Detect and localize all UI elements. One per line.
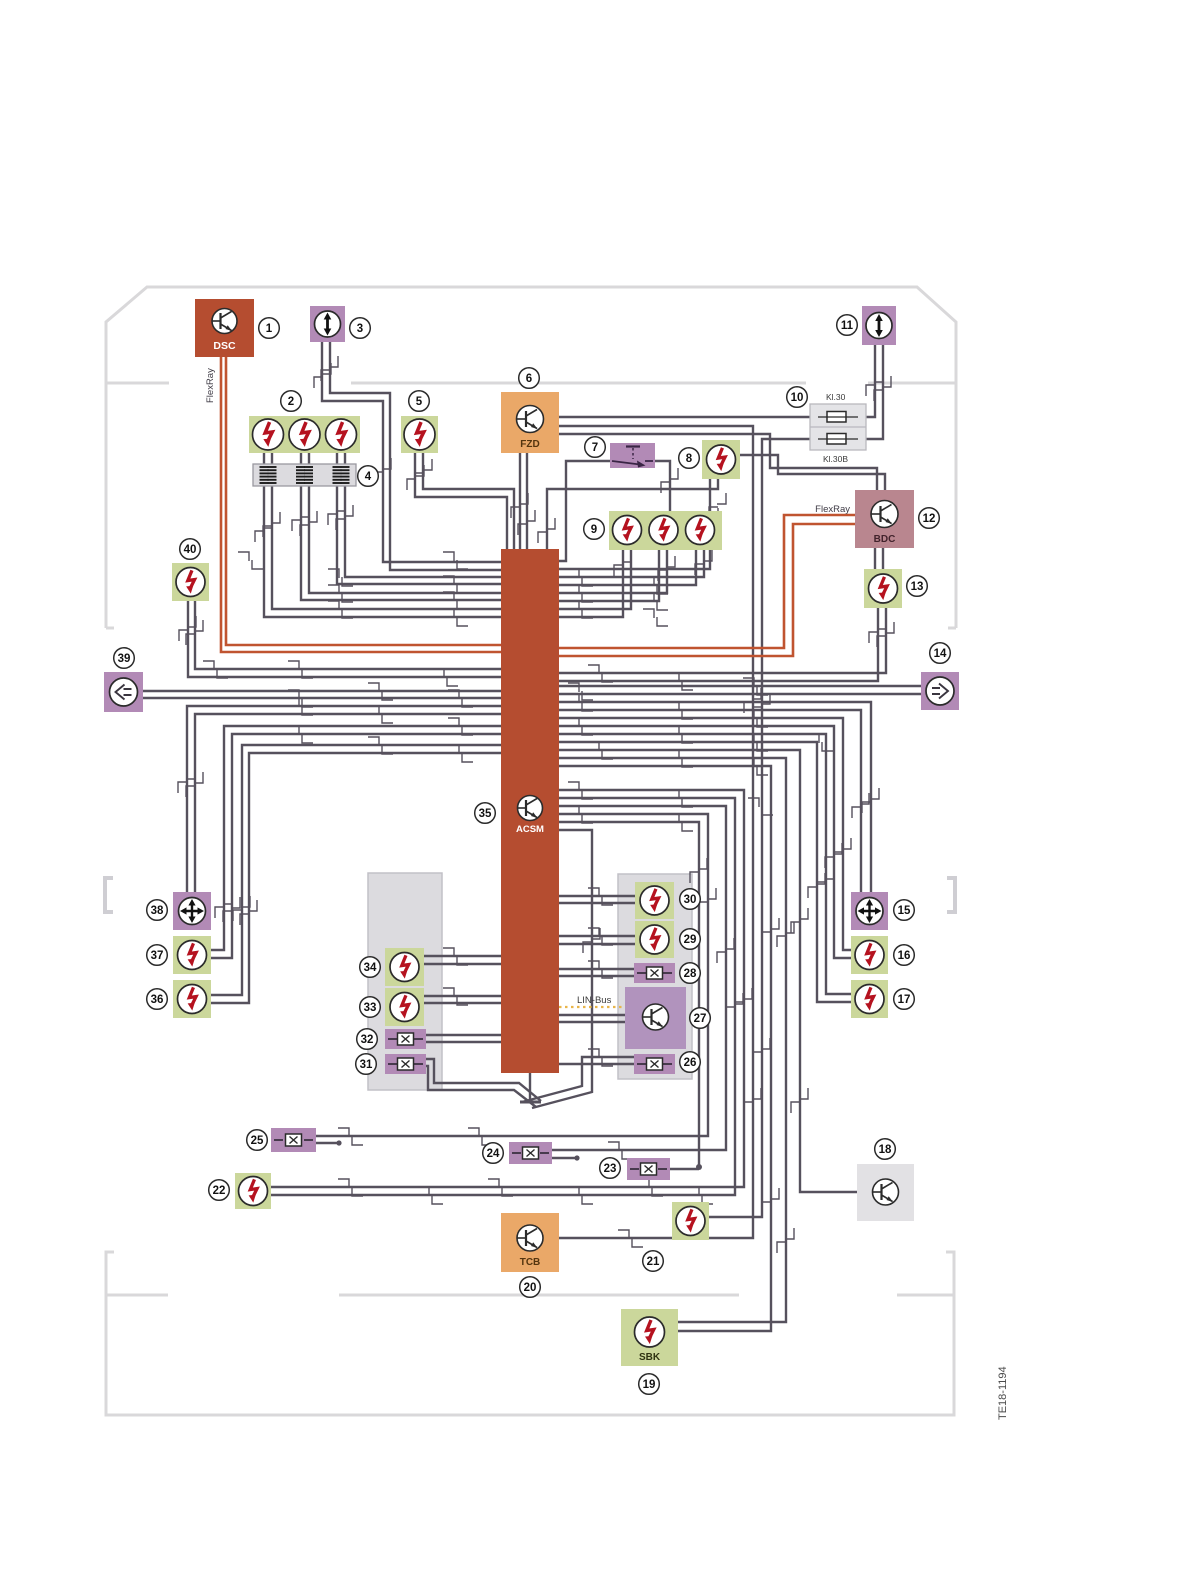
wire FZD through fuse KL30 to box11 [559,345,875,417]
node label 7 [585,437,606,458]
node label 5 [409,391,430,412]
wire band2 c2R to ACSM [309,450,501,593]
node label 34 [360,957,381,978]
wire band9 c3R to ACSM [559,550,704,577]
svg-text:11: 11 [841,320,854,332]
svg-text:35: 35 [479,808,492,820]
FZD control unit [501,392,559,453]
svg-text:16: 16 [898,950,911,962]
wire BDC to box13 link L [874,548,876,569]
ground stem [529,1073,531,1101]
wire ACSM to box22 a [271,790,744,1187]
box 27 seat control unit [625,987,686,1049]
box 38 seat position [173,892,211,930]
box 21 airbag igniter [672,1202,709,1240]
svg-text:13: 13 [911,581,924,593]
connector break symbols [443,552,468,569]
left seat module panel [368,873,442,1090]
node label 26 [680,1052,701,1073]
box 23 belt tensioner [627,1158,670,1180]
svg-text:34: 34 [364,962,377,974]
box 40 airbag igniter [172,563,209,601]
wire ACSM to box15 b [559,710,861,892]
svg-text:TCB: TCB [520,1257,541,1268]
wire ACSM to box25 [316,814,708,1136]
LIN-Bus line [559,1006,625,1008]
svg-text:24: 24 [487,1148,500,1160]
wire ACSM to box26 b [559,1063,635,1065]
box 22 airbag igniter [235,1173,271,1209]
box24 stub [552,1157,576,1159]
box 37 airbag igniter [173,936,211,974]
wire ACSM to box36 b [211,753,501,1003]
wire box8 right to BDC top [740,455,885,490]
node label 33 [360,997,381,1018]
band 2: three airbag igniters [249,416,360,453]
wire ACSM to box23 junction [559,822,699,1166]
wire ACSM to box14 upper [559,685,921,687]
wire FZD down right loom to TCB [559,426,753,1238]
wire ACSM to box32 a [426,1034,501,1036]
wire ACSM to box18 [559,750,857,1192]
wire box5-L to ACSM top [415,453,507,549]
junction dot box23 [696,1164,702,1170]
wire ACSM to ground drop [532,830,592,1108]
wire band2 c1L to ACSM [264,450,501,617]
wire ACSM to SBK a [559,758,786,1322]
wire band9 c1R to ACSM [559,550,631,609]
ACSM central control unit [501,549,559,1073]
wire box7 to ACSM right [559,461,610,561]
svg-text:39: 39 [118,653,131,665]
box 15 seat position right [851,892,888,930]
node label 36 [147,989,168,1010]
box25 stub [316,1142,338,1144]
wire ACSM to box16 b [559,726,851,958]
node label 18 [875,1139,896,1160]
node label 32 [357,1029,378,1050]
wire ACSM to box37 a [211,726,501,950]
node label 10 [787,387,808,408]
wire ACSM to box33 b [424,1002,501,1004]
wire ACSM to box34 a [424,955,501,957]
wire ACSM to box15 a [559,702,871,892]
node label 14 [930,643,951,664]
svg-text:22: 22 [213,1185,226,1197]
box 5 airbag igniter [401,416,438,453]
FlexRay BDC outer [559,524,855,656]
svg-text:DSC: DSC [213,340,236,352]
DSC control unit U1 [195,299,254,357]
wire ACSM to box32 b [426,1041,501,1043]
node label 3 [350,318,371,339]
svg-text:29: 29 [684,934,697,946]
svg-text:23: 23 [604,1163,617,1175]
box 4: coil block [253,464,356,486]
svg-text:9: 9 [591,524,597,536]
wire ACSM to box17 b [559,742,851,1002]
node label 1 [259,318,280,339]
node label 35 [475,803,496,824]
node label 28 [680,963,701,984]
wire FZD bottom-L to ACSM top [519,453,521,549]
box 18 control unit [857,1164,914,1221]
wire ACSM to box27 a [559,1014,625,1016]
wire ACSM to box34 b [424,963,501,965]
svg-text:26: 26 [684,1057,697,1069]
wire ACSM to box37 b [211,734,501,958]
node label 20 [520,1277,541,1298]
wire band2 c1R to ACSM [272,450,501,609]
svg-text:36: 36 [151,994,164,1006]
svg-text:FlexRay: FlexRay [205,368,216,403]
node label 16 [894,945,915,966]
wire ACSM to box29 a [559,935,635,937]
wire band2 c3L to ACSM [337,450,501,584]
svg-text:30: 30 [684,894,697,906]
wire BDC to box13 link R [882,548,884,569]
wire ACSM to box30 b [559,902,635,904]
box 30 airbag igniter [635,882,674,919]
node label 22 [209,1180,230,1201]
node label 19 [639,1374,660,1395]
ground bar [520,1101,541,1104]
wire box8-R to ACSM top [547,479,718,549]
box 36 airbag igniter [173,980,211,1018]
FlexRay BDC inner [559,515,855,648]
SBK control unit [621,1309,678,1366]
wire box40-R to ACSM [195,601,501,669]
node label 29 [680,929,701,950]
box 29 airbag igniter [635,921,674,958]
wire band9 c3L to ACSM [559,550,696,585]
wire box13-L to ACSM [559,608,878,681]
wire box31 b to ground [426,1066,536,1107]
svg-text:10: 10 [791,392,804,404]
node label 31 [356,1054,377,1075]
svg-text:5: 5 [416,396,423,408]
wire band2 c3R to ACSM [345,450,501,577]
svg-text:37: 37 [151,950,164,962]
wire FZD to BDC top [559,434,877,490]
box 16 airbag igniter [851,936,888,974]
svg-text:3: 3 [357,323,363,335]
svg-text:2: 2 [288,396,294,408]
car body outline bottom section [106,1252,954,1415]
left door bracket [105,878,113,912]
wire ACSM to box33 a [424,995,501,997]
node label 27 [690,1008,711,1029]
svg-text:27: 27 [694,1013,707,1025]
right seat module panel [618,874,692,1079]
svg-text:32: 32 [361,1034,374,1046]
wire ACSM to box27 b [559,1021,625,1023]
FlexRay DSC outer [221,357,501,652]
wire band9 c1L to ACSM [559,550,623,617]
node label 13 [907,576,928,597]
node label 15 [894,900,915,921]
node label 8 [679,448,700,469]
svg-text:31: 31 [360,1059,373,1071]
TCB control unit [501,1213,559,1272]
node label 30 [680,889,701,910]
svg-text:12: 12 [923,513,936,525]
svg-text:FZD: FZD [520,439,539,450]
wire ACSM to box17 a [559,734,851,994]
box 10 fuse box [810,404,866,450]
node label 9 [584,519,605,540]
right door bracket [947,878,955,912]
wire ACSM to box30 a [559,895,635,897]
wire box7 to band9 top [655,461,670,511]
node label 17 [894,989,915,1010]
wire FZD bottom-R to ACSM top [526,453,528,549]
node label 37 [147,945,168,966]
box 31 belt tensioner [385,1054,426,1074]
BDC control unit [855,490,914,548]
box 25 belt tensioner [271,1128,316,1152]
band 9: three airbag igniters [609,511,722,550]
node label 21 [643,1251,664,1272]
node label 40 [180,539,201,560]
wire box23 stub to junction [670,1168,699,1170]
node label 12 [919,508,940,529]
box 24 belt tensioner [509,1142,552,1164]
svg-text:19: 19 [643,1379,656,1391]
svg-text:8: 8 [686,453,693,465]
node label 11 [837,315,858,336]
svg-text:BDC: BDC [874,534,896,545]
wire ACSM to box38 a [187,706,501,892]
wire ACSM to box28 a [559,968,635,970]
svg-text:Kl.30: Kl.30 [826,392,846,402]
wire ACSM to box38 b [195,714,501,892]
svg-text:1: 1 [266,323,273,335]
wire box5-R to ACSM top [423,453,514,549]
svg-text:Kl.30B: Kl.30B [823,454,848,464]
svg-text:20: 20 [524,1282,537,1294]
wire box31 a to ground [426,1059,541,1101]
wire ACSM to box24 [552,806,726,1150]
wire ACSM to box14 lower [559,693,921,695]
box 11 window lifter switch right [862,306,896,345]
svg-text:TE18-1194: TE18-1194 [997,1366,1009,1420]
box 28 belt tensioner [634,963,675,983]
box 33 airbag igniter [385,988,424,1026]
node label 6 [519,368,540,389]
wire box8-L to ACSM right [559,479,710,569]
box 26 belt tensioner [634,1054,675,1074]
node label 23 [600,1158,621,1179]
svg-text:17: 17 [898,994,911,1006]
wire band9 c2R to ACSM [559,550,667,593]
svg-text:4: 4 [365,471,372,483]
wire box11 through fuse KL30B down to box21 [709,345,883,1217]
svg-text:25: 25 [251,1135,264,1147]
box 34 airbag igniter [385,948,424,986]
node label 2 [281,391,302,412]
node label 38 [147,900,168,921]
svg-text:33: 33 [364,1002,377,1014]
svg-text:40: 40 [184,544,197,556]
svg-text:15: 15 [898,905,911,917]
wire ACSM to box28 b [559,975,635,977]
wire box3-R to ACSM [330,342,501,570]
box 17 airbag igniter [851,980,888,1018]
wire ACSM to box29 b [559,943,635,945]
box 14 exit arrow right [921,672,959,710]
wire ACSM to box22 b [271,798,735,1195]
node label 39 [114,648,135,669]
wire band2 c2L to ACSM [301,450,501,600]
FlexRay DSC inner [226,357,501,645]
car body outline top section [106,287,956,628]
svg-text:ACSM: ACSM [516,824,544,835]
wire box26 a to ground [522,1057,634,1102]
svg-text:21: 21 [647,1256,660,1268]
box 39 exit arrow left [104,672,143,712]
svg-text:LIN-Bus: LIN-Bus [577,995,612,1006]
svg-text:14: 14 [934,648,947,660]
box 3 window lifter switch [310,306,345,342]
wire ACSM to box16 a [559,718,851,950]
wire band9 c2L to ACSM [559,550,659,601]
box 7 switch [610,443,655,468]
wire ACSM to box36 a [211,745,501,995]
node label 24 [483,1143,504,1164]
wire box39 upper to ACSM [142,690,501,692]
svg-text:7: 7 [592,442,598,454]
wire box3-L to ACSM [322,342,501,562]
box 32 belt tensioner [385,1029,426,1049]
wire box39 lower to ACSM [142,697,501,699]
svg-text:18: 18 [879,1144,892,1156]
svg-text:38: 38 [151,905,164,917]
svg-text:6: 6 [526,373,532,385]
wire box13-R to ACSM [559,608,886,673]
svg-text:SBK: SBK [639,1352,661,1363]
svg-text:FlexRay: FlexRay [815,504,850,515]
svg-text:28: 28 [684,968,697,980]
wire ACSM to SBK b [559,766,771,1331]
node label 25 [247,1130,268,1151]
node label 4 [358,466,379,487]
box 8 airbag igniter [702,440,740,479]
wire box40-L to ACSM [188,601,501,677]
box 13 airbag igniter [864,569,902,608]
